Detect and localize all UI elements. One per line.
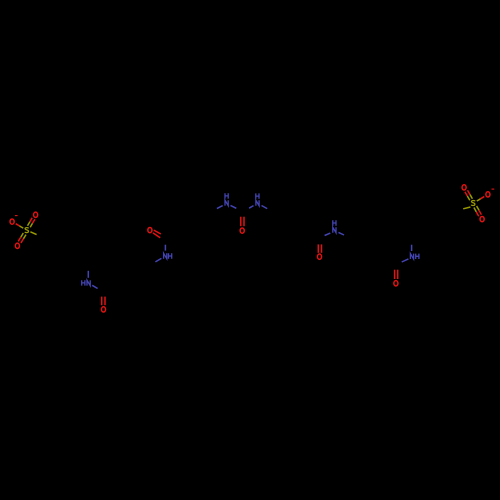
bond N-C stub left [231,205,237,208]
atom label O (amide3) [317,254,321,259]
bond N-C stub (amide1) [92,285,97,288]
minus charge left [15,215,18,217]
bond C=O double (amide3) [317,244,319,252]
bond S2=O double top [470,195,472,199]
atom label O (amide2) [148,227,152,232]
bond N-ring3 stub [217,206,223,209]
bond S2-ring6 stub [463,207,470,209]
atom label N (amide4) [410,254,413,259]
atom label N (amide3) [333,227,336,232]
bond N-C stub (amide3) [325,233,331,235]
atom label H (amide4) [416,254,419,259]
bond S1-ring1 stub [30,232,36,235]
atom label S1 [25,228,29,233]
sulfonate group S1 (left) [10,212,38,248]
amide 4 [394,245,419,286]
atom label O (amide1) [101,307,105,312]
atom label O minus (right) [486,192,490,197]
bond N-ring5 stub (amide3) [339,232,345,235]
bond C=O double (urea) [240,217,242,227]
atom label O bottom (left sulfonate) [15,243,19,248]
atom label N (amide1) [87,280,90,285]
atom label O (amide4) [394,281,398,286]
atom label N (urea right) [256,200,259,205]
atom label H (urea left) [225,193,228,198]
amide 1 [82,271,106,312]
bond S1-O(-) single [19,226,23,228]
bond N-C stub (amide4) [402,259,409,262]
bond N-C stub (amide2) vertical [164,245,166,251]
sulfonate group S2 (right) [462,185,494,222]
atom label H (amide2) [169,253,172,258]
bond S2-O(-) single [477,199,481,201]
amide 3 [317,220,344,259]
bond N-ring1 stub vertical [87,271,89,278]
atom label H (amide3) [333,220,336,225]
minus charge right [492,188,495,190]
amide 2 [148,227,172,261]
atom label H (urea right) [256,193,259,198]
atom label O (urea) [240,228,244,233]
bond N-ring4 stub [262,206,268,209]
bond N-ring2 stub (amide2) [155,258,161,262]
bond S1=O double top-right [30,223,32,227]
atom label S2 [471,201,475,206]
atom label O top (right sulfonate) [462,185,466,190]
bond C=O double (amide2) [154,230,161,234]
atom label O minus (left) [10,219,14,224]
bond C=O double (amide1) [101,297,103,306]
bond S1=O double bottom [21,233,24,237]
urea core [217,193,267,233]
atom label N (amide2) [164,253,167,258]
atom label H (amide1) [82,280,85,285]
atom label N (urea left) [225,200,228,205]
atom label O top (left sulfonate) [34,212,38,217]
atom label O bottom (right sulfonate) [480,216,484,221]
bond N-ring6 stub vertical [411,245,413,251]
bond S2=O double bottom-right [474,208,476,212]
bond C=O double (amide4) [394,270,396,279]
bond N-C stub right [249,206,253,209]
